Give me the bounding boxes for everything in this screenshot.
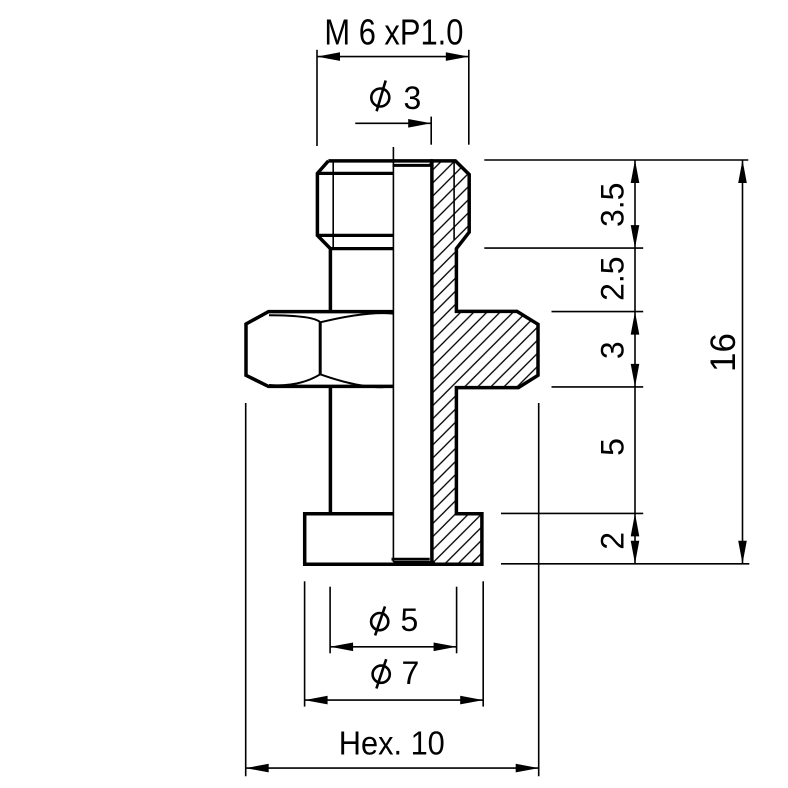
svg-text:3: 3 — [595, 341, 631, 359]
phi7 left extension line — [304, 581, 306, 706]
flange external outline chain (left) — [305, 514, 482, 564]
hex external outline chain (left) — [246, 312, 393, 387]
dimension and extension lines — [246, 50, 750, 777]
16 arrow down — [738, 541, 747, 564]
svg-text:3: 3 — [404, 80, 422, 116]
chain arrow up at hex top — [631, 312, 640, 335]
thread minor diameter line right (in section) — [453, 163, 455, 241]
arrowheads — [246, 52, 747, 772]
phi7 dimension line — [305, 699, 484, 701]
section hatch (right half cross-section) — [432, 161, 538, 564]
centerline — [392, 147, 394, 562]
chain arrow down at y248 — [631, 225, 640, 248]
phi5 left arrow — [330, 643, 353, 652]
neck lower left edge — [329, 386, 333, 513]
thread chamfer circle top line — [317, 172, 393, 175]
right ext line flange top — [501, 512, 643, 514]
hex bottom-left face arc — [269, 374, 320, 385]
hex10 left extension line — [245, 403, 247, 776]
M6 left extension line — [316, 50, 318, 146]
svg-text:Hex. 10: Hex. 10 — [339, 725, 445, 762]
hex face vertical corner edge — [319, 322, 322, 374]
phi3 dimension line — [355, 122, 431, 124]
chain arrow up at y160 — [631, 160, 640, 183]
hex10 left arrow — [246, 764, 269, 773]
phi7 right extension line — [482, 581, 484, 706]
top face across hole — [328, 159, 433, 163]
right ext line hex top — [552, 311, 644, 313]
hole top counterbore line — [393, 161, 433, 166]
phi5 right extension line — [456, 587, 458, 654]
svg-text:3.5: 3.5 — [595, 183, 631, 227]
svg-text:5: 5 — [401, 602, 419, 638]
phi3 extension line — [430, 117, 432, 145]
section outline (right half, closed) — [432, 161, 538, 564]
part outline group (thick) — [246, 161, 538, 564]
phi7 left arrow — [305, 696, 328, 705]
phi5 dimension line — [330, 646, 457, 648]
hex10 dimension line — [246, 767, 539, 769]
right ext line bottom (y564) — [501, 563, 749, 565]
thread external outline chain (left) — [317, 161, 330, 312]
hole bottom counterbore line — [392, 558, 430, 561]
hole bottom inner thin line — [393, 561, 430, 563]
phi7 right arrow — [460, 696, 483, 705]
hex top-left face arc — [269, 315, 320, 322]
M6 left arrow — [317, 52, 340, 61]
phi3 right arrow — [408, 119, 431, 128]
hex10 right arrow — [516, 764, 539, 773]
chain arrow down at y564 — [631, 541, 640, 564]
svg-text:M 6 xP1.0: M 6 xP1.0 — [324, 12, 463, 53]
16 dimension line vertical — [742, 160, 744, 564]
right ext line thread bottom (y248) — [484, 247, 643, 249]
M6 dimension line — [317, 56, 469, 58]
phi5 left extension line — [329, 587, 331, 654]
label phi3 symbol — [371, 81, 389, 112]
right ext line top (y160) — [484, 159, 748, 161]
chain arrow down at hex bottom — [631, 364, 640, 387]
thread end shoulder line — [330, 247, 393, 250]
svg-text:2.5: 2.5 — [595, 256, 631, 300]
chain dimension line vertical — [634, 160, 636, 564]
hex top-middle face arc — [320, 313, 393, 322]
label phi5 symbol — [371, 606, 388, 635]
thread chamfer circle bottom line — [317, 234, 393, 237]
svg-text:2: 2 — [595, 532, 631, 550]
thread minor diameter line left — [332, 163, 334, 249]
hex chamfer arcs (thin) — [269, 313, 393, 387]
thin object lines — [333, 147, 454, 562]
phi5 right arrow — [434, 643, 457, 652]
hex10 right extension line — [538, 403, 540, 776]
chain arrow up at flange top — [631, 513, 640, 536]
hex bottom-middle face arc — [320, 374, 393, 387]
M6 right arrow — [446, 52, 469, 61]
M6 right extension line — [468, 50, 470, 145]
svg-text:5: 5 — [595, 438, 631, 456]
svg-text:7: 7 — [402, 655, 420, 691]
right ext line hex bottom — [552, 386, 644, 388]
16 arrow up — [738, 160, 747, 183]
svg-text:16: 16 — [704, 333, 743, 372]
label phi7 symbol — [373, 659, 390, 688]
